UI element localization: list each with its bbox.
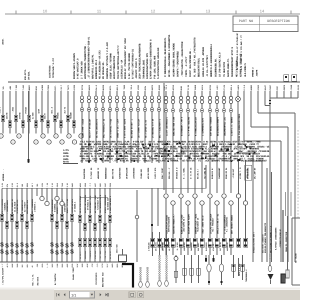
svg-text:LYS.7: LYS.7 — [60, 84, 63, 90]
grey riser G2 — [290, 192, 292, 216]
wire W-C2 — [84, 188, 86, 262]
svg-text:FMG0: FMG0 — [109, 182, 112, 187]
svg-text:TYKTY: TYKTY — [67, 84, 70, 90]
motor M-E2 — [219, 255, 223, 285]
connector J-B3 — [10, 214, 13, 221]
svg-text:45.E1M28G: 45.E1M28G — [162, 242, 165, 251]
connector K-C7 — [108, 238, 111, 247]
wire W-B10 (stub) — [46, 188, 48, 202]
relay K-X1 — [237, 238, 241, 247]
svg-text:GGM6FY//-5M29FMKEB2: GGM6FY//-5M29FMKEB2 — [177, 51, 180, 77]
wire W-B1 — [1, 188, 3, 262]
svg-text:-: - — [188, 202, 189, 205]
ground designation G3 — [37, 276, 40, 286]
terminal circle TR4 — [186, 201, 190, 205]
svg-text:3M-S2AL: 3M-S2AL — [28, 71, 31, 80]
terminal circle T10 — [72, 140, 76, 144]
svg-text:E2RREGF8S 0M-3: E2RREGF8S 0M-3 — [95, 59, 98, 79]
svg-text:F627-: F627- — [54, 85, 57, 90]
svg-text:Y2AKM: Y2AKM — [194, 84, 197, 90]
svg-text:W2FKB0 L Y3LWK GT: W2FKB0 L Y3LWK GT — [240, 53, 243, 77]
pin label C2 — [84, 250, 87, 259]
svg-text:GALR0T668.: GALR0T668. — [83, 168, 86, 179]
coil connector M2 — [87, 96, 90, 103]
battery cable (thick wire) — [122, 264, 133, 288]
switch SW-B13 — [60, 242, 64, 256]
svg-text:./L18 K4T: ./L18 K4T — [232, 168, 235, 179]
svg-text:24A7: 24A7 — [104, 182, 107, 187]
wire W-R9c — [223, 247, 225, 255]
svg-text:E/KF0M S9M34833-S489E6TB6MK 8: E/KF0M S9M34833-S489E6TB6MK 8 — [150, 39, 153, 79]
relay K-R3 — [176, 238, 183, 251]
svg-text:. 4KM42FA0EK5: . 4KM42FA0EK5 — [6, 199, 9, 214]
svg-text:S: S — [10, 249, 14, 256]
svg-text:8S3GWM-M8AR KW3M7: 8S3GWM-M8AR KW3M7 — [187, 213, 190, 234]
svg-text:EY917: EY917 — [269, 84, 272, 90]
label W-R4 — [187, 213, 190, 234]
svg-text:YS58F EL6S.-T6T9RMK: YS58F EL6S.-T6T9RMK — [110, 53, 113, 79]
svg-text:0M6RB8 2: 0M6RB8 2 — [252, 67, 255, 77]
svg-text:4A Y: 4A Y — [31, 182, 34, 187]
connector J-L9 — [50, 106, 56, 121]
svg-text:F4K R2AA1LM4798 B: F4K R2AA1LM4798 B — [99, 194, 102, 213]
junction box (right edge) — [292, 218, 300, 285]
svg-text:/BM.: /BM. — [36, 183, 39, 187]
connector J-L10 — [56, 112, 62, 127]
wire W-B14 — [66, 188, 68, 262]
svg-text:WT4FRLE4AR: WT4FRLE4AR — [126, 167, 129, 179]
svg-text:A 7YSKMB8.: A 7YSKMB8. — [167, 160, 179, 163]
svg-text:1/1: 1/1 — [71, 293, 76, 297]
lamp on W-straight — [236, 97, 241, 102]
svg-text:E-3.6: E-3.6 — [243, 84, 246, 90]
svg-text:590TS: 590TS — [151, 84, 154, 90]
svg-text:S: S — [0, 242, 4, 249]
wire W-M1 — [81, 91, 83, 163]
svg-text:KK31R-B/ 3766SG4L58G7 2G/ S31: KK31R-B/ 3766SG4L58G7 2G/ S31K — [124, 38, 127, 79]
heavy lead — [282, 210, 284, 262]
svg-text:2 7 3R8GK W5W: 2 7 3R8GK W5W — [80, 61, 83, 79]
terminal circle TX1 — [236, 194, 240, 198]
relay K-R4 — [183, 238, 190, 251]
component cluster band (inline connectors and splices) — [79, 141, 270, 163]
svg-text:3G3//430: 3G3//430 — [116, 244, 119, 253]
svg-text:/9- B/3G2: /9- B/3G2 — [176, 242, 179, 251]
svg-text:10: 10 — [43, 9, 48, 14]
svg-text:A32S6F84W27W95G ST9: A32S6F84W27W95G ST9 — [146, 53, 149, 79]
svg-text:3.8A7/L S. EEMKS: 3.8A7/L S. EEMKS — [230, 116, 233, 136]
labels right — [253, 222, 289, 253]
svg-text:202: 202 — [21, 264, 24, 268]
svg-text:.0L4: .0L4 — [204, 160, 210, 163]
svg-text:.17 1/BR826ATB6KYRKG4847-SS8-A: .17 1/BR826ATB6KYRKG4847-SS8-AL — [88, 36, 91, 79]
svg-text:46LMRM-5EA9RS 0996L/AEKBG: 46LMRM-5EA9RS 0996L/AEKBG — [172, 42, 175, 77]
terminal circle T2 — [11, 140, 15, 144]
svg-text:ALK Y2: ALK Y2 — [63, 106, 66, 113]
connector J-L7 — [37, 108, 43, 121]
pin labels above lower bus — [1, 182, 112, 187]
label W-B2 — [6, 199, 9, 214]
svg-text:11: 11 — [97, 9, 102, 14]
label W-B14 — [66, 198, 69, 214]
connector J-L11 — [63, 106, 69, 121]
svg-text:3 5BLTY9MR .S1G2B: 3 5BLTY9MR .S1G2B — [81, 118, 84, 138]
splice S-M1 — [81, 108, 85, 139]
ground designation G6 — [95, 272, 98, 285]
svg-text:3- K.79 1G: 3- K.79 1G — [190, 167, 193, 179]
svg-text:53M 040W//7AB058: 53M 040W//7AB058 — [209, 116, 212, 136]
svg-text:8/R2WRGA7: 8/R2WRGA7 — [256, 160, 268, 163]
switch SW-B14 — [65, 243, 69, 257]
splice S-M2 — [88, 108, 92, 139]
svg-text:.Y3 0: .Y3 0 — [165, 84, 168, 90]
connector J-E2 — [238, 258, 241, 276]
svg-text:L8 2Y0-S1W7K2.K1.0: L8 2Y0-S1W7K2.K1.0 — [219, 52, 222, 77]
svg-text:-: - — [231, 202, 232, 205]
splice S-M8 — [130, 108, 134, 139]
title block (PART NO / DESCRIPTION) — [233, 16, 298, 32]
wire W-B15 — [71, 188, 73, 262]
svg-text:-: - — [224, 195, 225, 198]
svg-text:KBERERA3WW: KBERERA3WW — [104, 167, 107, 179]
pin label C7 — [109, 250, 112, 259]
connector J-L3 — [11, 106, 17, 121]
jumper bus mid — [80, 197, 108, 199]
connector J-L8 — [43, 113, 49, 127]
coil connector F-R9 — [222, 96, 226, 136]
connector J-C4 — [93, 223, 96, 230]
connector J-C5 — [98, 215, 101, 222]
svg-text:/.81/YFW.A7537M: /.81/YFW.A7537M — [2, 267, 5, 285]
svg-text:-A8B: -A8B — [9, 85, 12, 90]
svg-text:W0Y46 RSFK: W0Y46 RSFK — [147, 167, 150, 179]
wire: upper harness bus — [8, 81, 300, 83]
label W-R6 — [201, 214, 204, 234]
toolbar button: first page — [56, 293, 59, 296]
svg-text:F0EBY03W /9717A22-Y 2.S.44M: F0EBY03W /9717A22-Y 2.S.44M — [106, 42, 109, 79]
svg-text:A9KLT8G 96R Y37R: A9KLT8G 96R Y37R — [172, 116, 175, 136]
svg-text:4811S: 4811S — [158, 84, 161, 90]
wire W-R4c — [187, 247, 189, 255]
wire W-R5b — [194, 198, 196, 238]
coil connector F-R2 — [171, 96, 175, 136]
net label left edge — [2, 168, 5, 181]
wire: ECM ground bus — [0, 261, 126, 263]
svg-text:1 .7: 1 .7 — [1, 263, 4, 268]
svg-text:S: S — [70, 249, 74, 256]
coil connector M7 — [122, 96, 125, 103]
relay K-L2 — [155, 232, 162, 256]
svg-text:REM7YA47GK8G8M0: REM7YA47GK8G8M0 — [168, 216, 171, 232]
label W-B1 — [1, 198, 6, 214]
wire W-L12 — [73, 91, 75, 134]
label W-C1 — [79, 195, 82, 213]
net label edge — [2, 38, 5, 45]
net labels: center column block — [73, 36, 160, 79]
switch SW-B12 — [55, 243, 59, 257]
relay K-L3 — [162, 232, 169, 256]
connector J-L5 — [24, 106, 30, 121]
svg-text:GG9 A: GG9 A — [230, 84, 233, 90]
svg-text:474TB 7. M: 474TB 7. M — [239, 167, 242, 179]
svg-text:2-GK: 2-GK — [1, 182, 4, 187]
svg-text:FL SG5- YG8.7 K8..FYK78G2T978: FL SG5- YG8.7 K8..FYK78G2T978 — [193, 37, 196, 77]
svg-text:027M: 027M — [37, 108, 40, 113]
relay K-R6 — [197, 238, 204, 251]
svg-text:1Y A5W58.3: 1Y A5W58.3 — [73, 201, 76, 212]
splice S-M7 — [123, 108, 127, 139]
terminal circle T3 — [17, 134, 21, 138]
svg-text:2Y/8BETRK2 B M SR: 2Y/8BETRK2 B M SR — [151, 118, 154, 138]
connector header blocks — [284, 75, 297, 82]
svg-text:/6L3S: /6L3S — [297, 84, 300, 90]
svg-text:TK1721 B2F78MY6S4-AAY7/Y/: TK1721 B2F78MY6S4-AAY7/Y/ — [117, 44, 120, 79]
wire W-X1b — [238, 198, 240, 247]
wire W-R2b — [172, 205, 174, 238]
svg-text:6B3-S: 6B3-S — [116, 84, 119, 90]
wire W-L9 — [54, 91, 56, 134]
svg-text:-: - — [195, 195, 196, 198]
svg-text:/740L07S: /740L07S — [89, 250, 92, 259]
wire W-C3 — [89, 188, 91, 262]
connector J-C7 — [108, 215, 111, 222]
svg-text:G518RB6GBB.R8.: G518RB6GBB.R8. — [214, 58, 217, 77]
svg-text:W9-B.AE21: W9-B.AE21 — [155, 242, 158, 251]
svg-text:K9 KFE64W.5S.: K9 KFE64W.5S. — [102, 61, 105, 79]
switch SW-B6 — [25, 243, 29, 257]
svg-text:FY8 12KL 810B.4K8: FY8 12KL 810B.4K8 — [153, 55, 156, 79]
wire W-long (to lower sheet) — [27, 91, 29, 163]
pin label C5 — [99, 250, 102, 259]
shield dashed line — [297, 130, 299, 218]
svg-text:7K48 4: 7K48 4 — [0, 106, 1, 113]
splice S-M11 — [151, 108, 155, 139]
wire riser R2 — [271, 172, 273, 262]
svg-text:0RBMM/R-5 G4ES0RAAM02KL4: 0RBMM/R-5 G4ES0RAAM02KL4 — [210, 44, 213, 77]
wire W-L4 — [22, 91, 24, 134]
wire W-D3 — [157, 188, 159, 226]
terminal circle TR5 — [193, 194, 197, 198]
svg-text:SAA-L946: SAA-L946 — [156, 160, 166, 163]
lamp L-E1 — [183, 255, 186, 283]
connector J-L12 — [69, 112, 75, 127]
horn symbol — [268, 274, 274, 284]
svg-text:TKTSL7GA8/ 0./5T: TKTSL7GA8/ 0./5T — [52, 57, 55, 78]
svg-text:588G: 588G — [61, 263, 64, 268]
wire W-L10 — [60, 91, 62, 134]
wire W-M4 — [102, 91, 104, 163]
svg-text:DESCRIPTION: DESCRIPTION — [267, 19, 289, 24]
svg-text:AS Y41W0: AS Y41W0 — [295, 253, 298, 263]
svg-text:K GT9KL34119Y337: K GT9KL34119Y337 — [194, 116, 197, 136]
svg-text:/RT -BBG: /RT -BBG — [99, 250, 102, 259]
coil connector M5 — [108, 96, 111, 103]
wire W-R7 — [209, 91, 211, 193]
switch SW-B2 — [5, 243, 9, 257]
wire W-R8 — [216, 91, 218, 193]
svg-text:BWTG8: BWTG8 — [102, 84, 105, 90]
shield drain chain D2 — [146, 267, 150, 287]
splice S-M5 — [109, 108, 113, 139]
terminal circle T9 — [67, 134, 71, 138]
svg-text:R0-E6: R0-E6 — [63, 161, 70, 164]
splice S-M6 — [116, 108, 120, 139]
coil connector F-R6 — [200, 96, 204, 136]
svg-text:S: S — [20, 249, 24, 256]
svg-text:4L5-FK8E/S: 4L5-FK8E/S — [244, 63, 247, 77]
svg-text:8 09-9 AAMY 4GSYW: 8 09-9 AAMY 4GSYW — [123, 118, 126, 138]
coil connector F-R3 — [179, 96, 183, 136]
switch SW-B4 — [15, 243, 19, 257]
wire elbow E1 — [244, 91, 281, 262]
svg-text:Y8B: Y8B — [21, 183, 24, 187]
svg-text:KE2F0WB4R ALW: KE2F0WB4R ALW — [26, 199, 29, 214]
terminal circle TX2 — [243, 201, 247, 205]
viewer toolbar background — [0, 287, 300, 300]
wire riser R1 — [266, 168, 268, 262]
svg-text:-85W4-. 8-3.0B: -85W4-. 8-3.0B — [66, 198, 69, 214]
svg-text:-Y8-A: -Y8-A — [130, 84, 133, 90]
svg-text:LK2T: LK2T — [94, 182, 97, 187]
relay K-L1 — [148, 232, 155, 256]
terminal circle T11 — [79, 134, 83, 138]
connector K-C4 — [93, 238, 96, 247]
svg-text:13: 13 — [206, 9, 211, 14]
relay K-R8 — [212, 238, 219, 251]
pin label C4 — [94, 250, 97, 259]
wire W-R1 — [165, 91, 167, 193]
svg-text:/F7K: /F7K — [91, 263, 94, 268]
svg-text:5-GSTLS032T4S1 WAS4L419: 5-GSTLS032T4S1 WAS4L419 — [157, 47, 160, 79]
svg-text:9T9T: 9T9T — [276, 85, 279, 90]
coil connector M8 — [129, 96, 132, 103]
switch SW-B15 — [70, 242, 74, 256]
pin label C1 — [79, 251, 82, 259]
label E-group — [245, 268, 248, 282]
svg-text:E7K9: E7K9 — [71, 263, 74, 268]
ground designation G4 — [54, 273, 57, 285]
connector J-B6 — [25, 221, 28, 228]
label W-B15 — [71, 198, 76, 214]
svg-text:2E2M 7R3A7AE1E2LMAAFB86MTB: 2E2M 7R3A7AE1E2LMAAFB86MTB — [139, 43, 142, 79]
svg-text:/S/0: /S/0 — [96, 263, 99, 268]
svg-text:S: S — [55, 250, 59, 257]
wire: lower bus to ECM — [2, 165, 206, 188]
svg-text:593A09AMRRT62AT K73T.9: 593A09AMRRT62AT K73T.9 — [231, 47, 234, 77]
label W-C7 — [109, 195, 112, 213]
svg-text:B/-TWA0TTW: B/-TWA0TTW — [54, 273, 57, 285]
svg-text:GE5 MT/9E: GE5 MT/9E — [111, 168, 114, 179]
label W-C2 — [84, 194, 89, 213]
connector J-C2 — [83, 223, 86, 230]
svg-text:G15A: G15A — [41, 263, 44, 268]
ground designation G7 — [102, 272, 105, 287]
wire elbow E3 — [258, 91, 295, 262]
terminal circle TR2 — [171, 201, 175, 205]
wire W-B8 (stub) — [36, 188, 38, 196]
connector J-B7 — [30, 214, 33, 221]
svg-text:TMRA3B9B45-L/: TMRA3B9B45-L/ — [245, 268, 248, 282]
svg-text:42: 42 — [31, 265, 34, 268]
terminal circle T4 — [34, 140, 38, 144]
wire comb drop — [269, 98, 271, 262]
svg-text:MTW: MTW — [6, 183, 9, 187]
wire W-R10b — [230, 205, 232, 238]
splice S-M4 — [102, 108, 106, 139]
svg-text:.R LS--S/E7Y78LY: .R LS--S/E7Y78LY — [206, 55, 209, 77]
coil connector M11 — [150, 96, 153, 103]
svg-text:306Y: 306Y — [99, 182, 102, 187]
svg-text:YLMYLT GY5: YLMYLT GY5 — [154, 167, 157, 179]
svg-text:/M9 TTE1: /M9 TTE1 — [104, 250, 107, 259]
splice note — [63, 149, 70, 164]
bus comb junction — [270, 91, 298, 98]
terminal circle TR3 — [179, 194, 183, 198]
svg-text:S: S — [25, 243, 29, 250]
connector J-B13 — [60, 214, 63, 221]
svg-text:L564/SWFF8 58 Y: L564/SWFF8 58 Y — [183, 216, 186, 232]
svg-text:4.7 M-MR /SW2/R0: 4.7 M-MR /SW2/R0 — [187, 116, 190, 136]
svg-text:Y3 2R: Y3 2R — [187, 84, 190, 90]
wire stub right — [286, 216, 289, 278]
wire W-M10 — [144, 91, 146, 163]
svg-text:8//G9LT-/SMTY46961A-S1: 8//G9LT-/SMTY46961A-S1 — [131, 49, 134, 79]
terminal circle TR7 — [208, 194, 212, 198]
svg-text:50LGT: 50LGT — [264, 84, 267, 90]
svg-text:S: S — [50, 249, 54, 256]
svg-text:4R6EF-4 28./ LB/F: 4R6EF-4 28./ LB/F — [116, 118, 119, 138]
wire W-R3 — [180, 91, 182, 193]
coil connector M12 — [157, 96, 160, 103]
svg-text:8W 2G 3./: 8W 2G 3./ — [197, 168, 200, 179]
svg-text:1RK9: 1RK9 — [84, 182, 87, 187]
wire W-B7 — [31, 188, 33, 262]
svg-text:76 0E474YM3: 76 0E474YM3 — [223, 61, 226, 77]
svg-text:1B-YT/RRM/ K4Y14F: 1B-YT/RRM/ K4Y14F — [137, 118, 140, 138]
svg-text:.FE93: .FE93 — [137, 84, 140, 90]
pin label C3 — [89, 250, 92, 259]
label W-C4 — [94, 194, 99, 213]
label W-R10 — [230, 214, 233, 234]
svg-text:Y0RM: Y0RM — [51, 263, 54, 268]
svg-text:E/W7K6E8M.-.MM 4: E/W7K6E8M.-.MM 4 — [180, 116, 183, 136]
label W-B4 — [16, 199, 19, 214]
svg-text:3 G2M6KKE01/B74: 3 G2M6KKE01/B74 — [201, 118, 204, 136]
svg-text:S: S — [30, 242, 34, 249]
svg-text:575S2: 575S2 — [257, 84, 260, 90]
svg-text:Y945B GE1: Y945B GE1 — [140, 168, 143, 179]
svg-text:45 1S/T-: 45 1S/T- — [79, 251, 82, 259]
svg-text:/478K27SEE-E9.: /478K27SEE-E9. — [16, 199, 19, 214]
svg-text:LBSGL16 LR.AT0 .ARY0W9: LBSGL16 LR.AT0 .ARY0W9 — [202, 47, 205, 77]
svg-text:78R4MK9GB.20GE: 78R4MK9GB.20GE — [142, 59, 145, 79]
wire W-D2 — [151, 188, 153, 240]
net labels: far right pair — [236, 32, 259, 77]
coil connector M1 — [80, 96, 83, 103]
svg-text:MS.8.KB39L5G0--8F.5F3: MS.8.KB39L5G0--8F.5F3 — [99, 50, 102, 79]
svg-text:S: S — [55, 243, 59, 250]
svg-text:MRB0Y: MRB0Y — [28, 84, 31, 90]
svg-text:12: 12 — [151, 9, 156, 14]
actuator box — [281, 274, 285, 283]
svg-text:4AMR24-K0: 4AMR24-K0 — [226, 242, 229, 251]
connector J-C3 — [88, 215, 91, 222]
wire W-L11 — [67, 91, 69, 134]
svg-text:BBS2447RT4T62L: BBS2447RT4T62L — [198, 57, 201, 77]
connector J-E1 — [232, 255, 235, 278]
svg-text:A2M4B37935: A2M4B37935 — [119, 167, 122, 179]
toolbar button: last page — [106, 293, 109, 296]
